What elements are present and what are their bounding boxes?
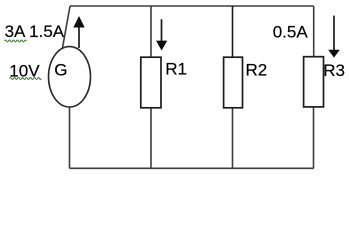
svg-text:0.5A: 0.5A xyxy=(273,23,309,42)
svg-text:R3: R3 xyxy=(323,61,345,80)
svg-text:3A 1.5A: 3A 1.5A xyxy=(5,22,65,41)
svg-text:R1: R1 xyxy=(165,59,187,78)
svg-text:R2: R2 xyxy=(246,60,268,79)
svg-text:G: G xyxy=(54,61,67,80)
